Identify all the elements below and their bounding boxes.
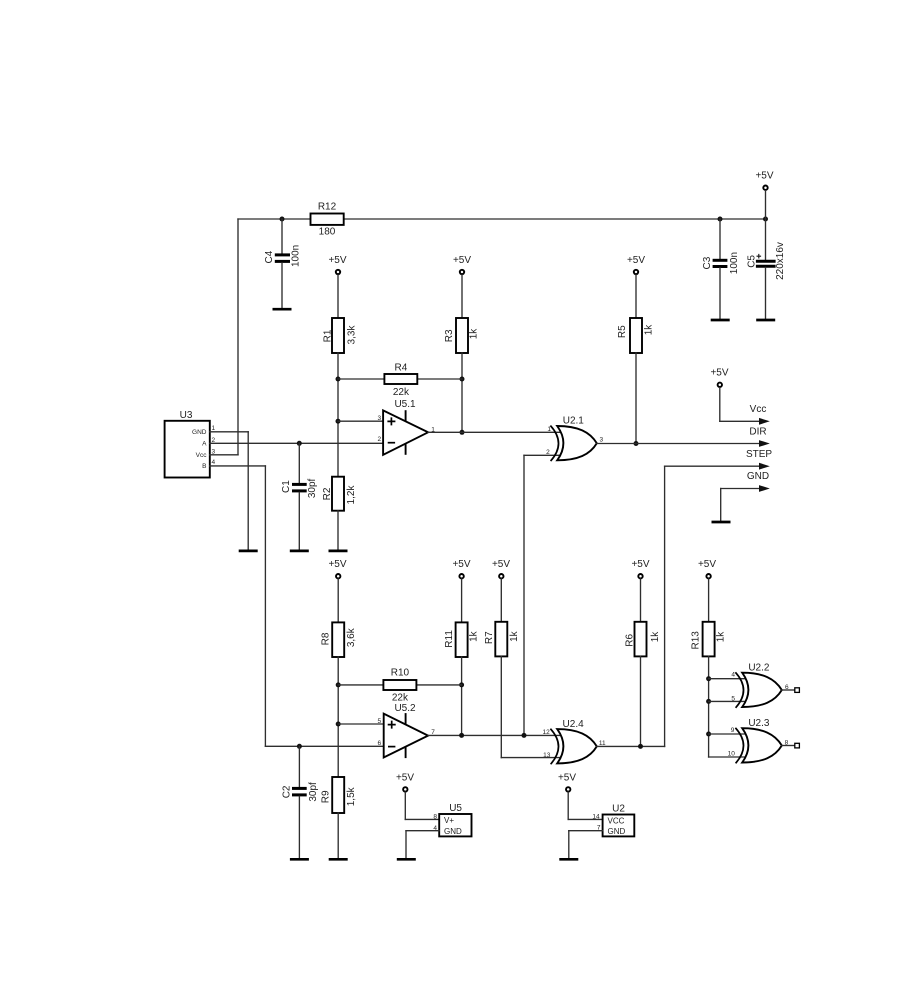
svg-text:1k: 1k (509, 630, 520, 642)
node junction U2.2 pin4 (706, 676, 711, 681)
node junction C5/+5V/rail (763, 217, 768, 222)
wire to + input U5.2 (338, 723, 384, 725)
svg-text:+5V: +5V (631, 559, 649, 570)
svg-text:U3: U3 (180, 410, 193, 421)
+5V supply (R13) (698, 559, 716, 622)
wire R6 bottom to U2.4 output line (640, 656, 642, 746)
svg-text:3: 3 (599, 437, 603, 444)
wire U3 pin4 B vertical down to channel 2 (264, 466, 266, 746)
svg-text:5: 5 (731, 695, 735, 702)
wire U5 GND pin horizontal (406, 830, 439, 832)
+5V supply (R8) (328, 559, 346, 622)
node junction C1 on A line (297, 441, 302, 446)
ground C1 (290, 550, 309, 553)
capacitor C4 (264, 219, 302, 308)
node junction R4 left / R1-R2 divider (336, 377, 341, 382)
svg-text:Vcc: Vcc (196, 452, 208, 459)
svg-text:1k: 1k (469, 630, 480, 642)
wire U3 pin1 GND vertical (247, 432, 249, 550)
wire top rail right segment (344, 218, 766, 220)
svg-text:4: 4 (212, 459, 216, 466)
op-amp U5.2 (377, 703, 435, 758)
svg-text:10: 10 (728, 751, 736, 758)
wire U2.1 pin2 vertical down to U5.2 output node (523, 455, 525, 735)
+5V supply (R7) (492, 559, 510, 622)
+5V supply (R11) (452, 559, 470, 622)
+5V supply (U2 power) (558, 773, 576, 820)
resistor R10 (383, 668, 416, 704)
resistor R7 (484, 622, 520, 657)
wire R11 bottom to U5.2 output node (461, 657, 463, 735)
resistor R8 (321, 622, 357, 657)
+5V supply (Vcc output) (710, 368, 728, 422)
wire U2.3 pin9 (709, 733, 745, 735)
svg-text:9: 9 (731, 727, 735, 734)
svg-text:GND: GND (747, 471, 769, 482)
wire R4 left stub (338, 378, 384, 380)
resistor R4 (384, 363, 417, 399)
svg-text:14: 14 (592, 813, 600, 820)
svg-text:220x16v: 220x16v (775, 242, 786, 280)
wire R5 bottom to DIR node (635, 353, 637, 444)
svg-text:+5V: +5V (452, 559, 470, 570)
node Vcc output arrow (720, 404, 770, 425)
pad U2.2 pin6 (795, 688, 800, 693)
svg-text:1,5k: 1,5k (346, 786, 357, 806)
wire op-amp U5.1 output to XOR U2.1 pin1 (428, 431, 559, 433)
svg-text:8: 8 (433, 813, 437, 820)
svg-text:4: 4 (731, 672, 735, 679)
svg-text:R9: R9 (321, 790, 332, 803)
svg-text:6: 6 (377, 740, 381, 747)
XOR gate U2.3 (728, 718, 789, 764)
wire U2.2 output stub (782, 689, 795, 691)
node junction R6 / U2.4 output (638, 744, 643, 749)
svg-text:R7: R7 (484, 631, 495, 644)
svg-text:U5.2: U5.2 (394, 703, 416, 714)
svg-text:1k: 1k (716, 631, 727, 643)
svg-text:U2: U2 (612, 803, 625, 814)
ground C2 (290, 858, 309, 861)
svg-text:+5V: +5V (328, 255, 346, 266)
svg-text:C1: C1 (281, 480, 292, 493)
wire R7 bottom down to U2.4 pin13 (500, 656, 502, 757)
XOR gate U2.4 (542, 719, 605, 764)
wire U3 pin4 B horizontal (210, 465, 266, 467)
wire R2 bottom (337, 511, 339, 550)
wire STEP vertical down to U2.4 output (664, 466, 666, 746)
svg-text:1k: 1k (650, 631, 661, 643)
ground C3 (711, 319, 730, 322)
XOR gate U2.2 (731, 663, 789, 708)
wire R1 bottom through divider down to R2 (337, 353, 339, 477)
capacitor C3 (702, 219, 740, 319)
svg-text:+5V: +5V (627, 255, 645, 266)
svg-text:+5V: +5V (698, 559, 716, 570)
svg-text:+5V: +5V (755, 171, 773, 182)
op-amp U5.1 (377, 399, 435, 455)
wire U5 GND vertical (405, 831, 407, 858)
+5V supply (R1) (328, 255, 346, 318)
svg-text:C4: C4 (264, 250, 275, 263)
wire U2 GND pin horizontal (569, 830, 603, 832)
svg-text:R4: R4 (395, 363, 408, 374)
svg-text:3: 3 (377, 415, 381, 422)
svg-text:22k: 22k (393, 387, 410, 398)
wire GND output vertical (720, 489, 722, 521)
wire R7 to U2.4 pin13 horizontal (501, 757, 559, 759)
capacitor C5 (electrolytic 220x16v) (746, 219, 785, 319)
node junction op-amp output / R3 (460, 430, 465, 435)
node junction C4/rail (280, 217, 285, 222)
svg-text:R12: R12 (318, 202, 337, 213)
svg-text:5: 5 (377, 718, 381, 725)
resistor R6 (624, 622, 661, 657)
svg-text:+5V: +5V (558, 773, 576, 784)
svg-text:VCC: VCC (608, 816, 625, 825)
wire +5V to U2 VCC pin (568, 818, 602, 820)
resistor R12 (311, 202, 344, 238)
wire U2 GND vertical (568, 831, 570, 858)
ground U2 (559, 858, 578, 861)
wire R9 bottom (337, 813, 339, 858)
resistor R1 (323, 318, 358, 353)
wire U2.3 pin10 (709, 756, 745, 758)
wire B line to U5.2 inverting input (265, 745, 383, 747)
resistor R11 (444, 622, 480, 657)
wire U2.3 output stub (782, 745, 795, 747)
svg-text:3,3k: 3,3k (347, 325, 358, 345)
svg-text:2: 2 (377, 436, 381, 443)
wire R13 bottom down to U2.3 pin10 (708, 656, 710, 757)
node junction non-inverting input U5.2 (336, 722, 341, 727)
svg-text:U2.2: U2.2 (748, 663, 770, 674)
capacitor C1 (281, 443, 318, 549)
svg-text:C3: C3 (702, 256, 713, 269)
resistor R9 (321, 777, 357, 813)
ground R2 (329, 550, 348, 553)
+5V supply (top right) (755, 171, 773, 220)
svg-text:R10: R10 (391, 668, 410, 679)
svg-text:R13: R13 (691, 631, 702, 650)
svg-text:U5: U5 (449, 803, 462, 814)
node GND output arrow (721, 471, 770, 492)
wire U5.2 output to U2.4 pin12 (428, 734, 559, 736)
svg-text:U2.3: U2.3 (748, 718, 770, 729)
svg-text:2: 2 (546, 449, 550, 456)
svg-text:+5V: +5V (492, 559, 510, 570)
ground R9 (329, 858, 348, 861)
node junction C2 on B line (297, 744, 302, 749)
wire to + input U5.1 (338, 420, 383, 422)
svg-text:1k: 1k (468, 328, 479, 340)
resistor R2 (322, 477, 357, 511)
XOR gate U2.1 (546, 415, 603, 461)
power block U5 (433, 803, 471, 836)
svg-text:C5: C5 (746, 255, 757, 268)
ground C4 (273, 308, 292, 311)
node junction R4 right / output node (460, 377, 465, 382)
connector U3 (165, 410, 216, 478)
svg-text:+5V: +5V (453, 255, 471, 266)
node junction R10 left / R8 divider (336, 682, 341, 687)
resistor R5 (617, 318, 655, 353)
svg-text:A: A (202, 441, 207, 448)
ground C5 (756, 319, 775, 322)
svg-text:180: 180 (319, 227, 336, 238)
svg-text:STEP: STEP (746, 449, 772, 460)
svg-text:+5V: +5V (710, 368, 728, 379)
node junction U2.1 pin2 riser (522, 733, 527, 738)
svg-text:B: B (202, 463, 206, 470)
wire top rail left segment (238, 218, 311, 220)
svg-text:GND: GND (608, 827, 626, 836)
wire U2.2 pin4 (709, 678, 745, 680)
svg-text:+5V: +5V (396, 773, 414, 784)
wire U3 pin2 A to op-amp inverting input (210, 442, 383, 444)
svg-text:U5.1: U5.1 (394, 399, 416, 410)
wire R4 right stub (417, 378, 462, 380)
node junction DIR / R5 (634, 441, 639, 446)
svg-text:DIR: DIR (749, 426, 766, 437)
node junction non-inverting input (336, 419, 341, 424)
svg-text:100n: 100n (290, 245, 301, 267)
svg-text:R5: R5 (617, 325, 628, 338)
svg-text:GND: GND (192, 429, 207, 436)
svg-text:1,2k: 1,2k (346, 485, 357, 505)
svg-text:U2.1: U2.1 (563, 415, 585, 426)
svg-text:13: 13 (543, 752, 551, 759)
svg-text:1k: 1k (644, 324, 655, 336)
wire R10 right stub (416, 684, 461, 686)
wire U2.1 pin2 horizontal (524, 454, 560, 456)
svg-text:Vcc: Vcc (750, 404, 767, 415)
svg-text:GND: GND (444, 827, 462, 836)
resistor R3 (444, 318, 480, 353)
svg-text:U2.4: U2.4 (563, 719, 585, 730)
svg-text:R8: R8 (321, 632, 332, 645)
+5V supply (R3) (453, 255, 471, 318)
+5V supply (R5) (627, 255, 645, 318)
wire R10 left stub (338, 684, 383, 686)
node junction C3/rail (718, 217, 723, 222)
wire R3 bottom to output node (461, 353, 463, 432)
svg-text:R3: R3 (444, 329, 455, 342)
capacitor C2 (282, 746, 319, 858)
wire U2.4 output to STEP riser (597, 745, 665, 747)
wire +5V to U5 V+ pin (405, 818, 439, 820)
resistor R13 (691, 622, 727, 657)
node DIR output arrow (597, 426, 770, 447)
svg-text:100n: 100n (729, 252, 740, 274)
svg-text:R11: R11 (444, 630, 455, 648)
ground U5 (397, 858, 416, 861)
wire U3 pin3 Vcc to left rail (210, 454, 238, 456)
+5V supply (U5 power) (396, 773, 414, 820)
node junction U2.3 pin9 (706, 732, 711, 737)
wire U2.2 pin5 (709, 700, 745, 702)
+5V supply (R6) (631, 559, 649, 622)
node STEP output arrow (665, 449, 773, 470)
ground U3 pin1 (239, 550, 258, 553)
svg-text:C2: C2 (282, 785, 293, 798)
ground GND output (712, 521, 731, 524)
svg-text:1: 1 (212, 425, 216, 432)
svg-text:R1: R1 (323, 329, 334, 342)
node junction R11 / output (459, 733, 464, 738)
svg-text:R2: R2 (322, 487, 333, 500)
svg-text:3,6k: 3,6k (346, 627, 357, 647)
power block U2 (592, 803, 634, 836)
svg-text:30pf: 30pf (308, 782, 319, 802)
svg-text:+5V: +5V (328, 559, 346, 570)
svg-text:30pf: 30pf (307, 478, 318, 498)
node junction U2.2 pin5 (706, 699, 711, 704)
svg-text:R6: R6 (624, 633, 635, 646)
svg-text:1: 1 (547, 426, 551, 433)
pad U2.3 pin8 (795, 743, 800, 748)
wire R8 bottom down to R9 (337, 657, 339, 777)
svg-text:12: 12 (542, 729, 550, 736)
svg-text:V+: V+ (444, 816, 454, 825)
node junction R10 right / R11 (459, 682, 464, 687)
wire left rail vertical to U3 Vcc (237, 219, 239, 455)
wire U3 pin1 GND horizontal (210, 431, 248, 433)
